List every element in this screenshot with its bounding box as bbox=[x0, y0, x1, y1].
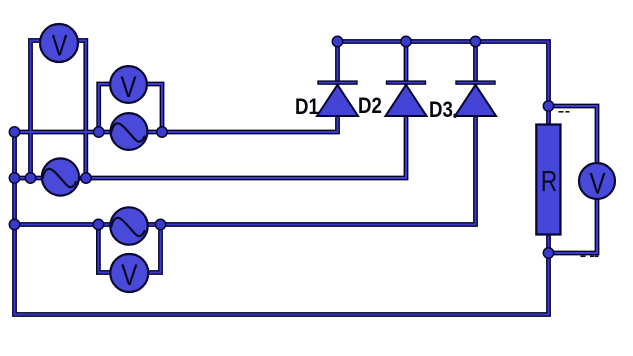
svg-text:D1: D1 bbox=[295, 96, 319, 120]
svg-text:V: V bbox=[121, 258, 138, 292]
svg-text:D2: D2 bbox=[358, 95, 382, 119]
svg-text:V: V bbox=[120, 69, 136, 103]
svg-text:D3: D3 bbox=[429, 99, 453, 123]
svg-text:R: R bbox=[541, 164, 557, 197]
svg-text:V: V bbox=[589, 166, 605, 200]
svg-text:V: V bbox=[52, 29, 68, 62]
